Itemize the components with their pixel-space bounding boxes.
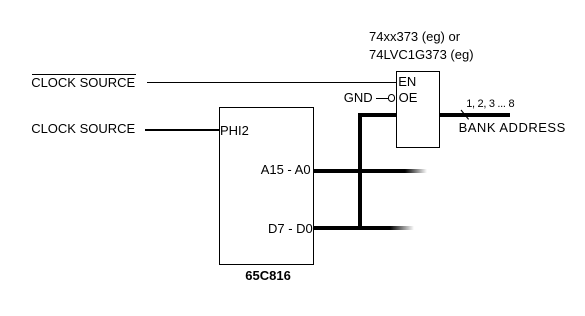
pin OE label xyxy=(399,91,418,104)
pin PHI2 label xyxy=(220,124,249,137)
node GND label xyxy=(344,91,373,104)
CPU U1 65C816 box xyxy=(219,107,314,265)
bus latch input horizontal segment xyxy=(358,113,397,117)
label 74xx373 (eg) or xyxy=(369,30,460,43)
pin EN label xyxy=(398,75,416,88)
node CLOCK SOURCE (inverted clock) label xyxy=(31,76,135,89)
bus vertical junction A-bus to latch input xyxy=(358,113,362,230)
bus BANK ADDRESS output xyxy=(439,113,509,117)
wire inverted clock source to latch EN pin xyxy=(147,82,397,83)
wire clock source to PHI2 pin xyxy=(145,129,218,130)
bus D7-D0 data bus (fading right) xyxy=(313,226,414,230)
node CLOCK SOURCE (PHI2 clock) label xyxy=(31,122,135,135)
label 74LVC1G373 (eg) xyxy=(369,48,474,61)
wire GND to OE inverter bubble xyxy=(376,98,388,99)
pin D7 - D0 label xyxy=(268,222,313,235)
label 65C816 (CPU part number) xyxy=(245,269,291,282)
bus width slash mark (8 lines) xyxy=(455,105,475,125)
inverter bubble on OE pin xyxy=(388,94,396,102)
label 1, 2, 3 ... 8 (bus width) xyxy=(466,99,514,110)
net BANK ADDRESS label xyxy=(459,121,566,134)
pin A15 - A0 label xyxy=(261,163,311,176)
overline on inverted CLOCK SOURCE xyxy=(32,74,136,75)
bus A15-A0 address bus (fading right) xyxy=(313,169,427,173)
latch U2 74xx373 box xyxy=(396,71,440,149)
